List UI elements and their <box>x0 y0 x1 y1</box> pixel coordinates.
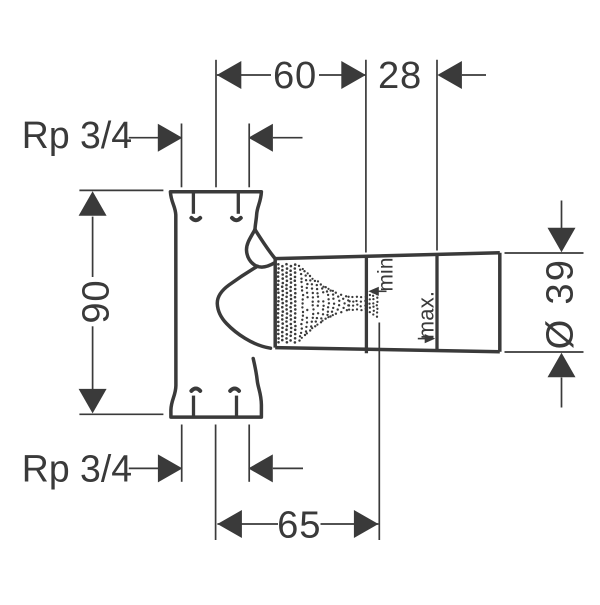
spigot left cap <box>273 258 277 347</box>
svg-text:90: 90 <box>75 280 118 324</box>
svg-text:min: min <box>375 257 398 291</box>
max leader <box>418 338 426 340</box>
svg-text:60: 60 <box>273 54 317 97</box>
dim 60 line <box>217 74 271 76</box>
dim diameter 39 extension lines <box>505 252 584 254</box>
min leader <box>378 290 387 292</box>
svg-text:Ø 39: Ø 39 <box>539 258 582 350</box>
dim 60-28 extension line pipe axis <box>215 60 217 188</box>
min depth line <box>365 256 368 353</box>
dim 60-28 extension line min <box>365 60 367 253</box>
thread tick top-right <box>237 193 240 214</box>
svg-text:65: 65 <box>277 504 321 547</box>
transition teardrop left <box>246 230 274 268</box>
max depth line <box>435 255 438 351</box>
dim 90 extension bottom <box>79 413 163 415</box>
thread tick top-left <box>192 193 195 214</box>
Rp bottom extension lines <box>181 425 183 482</box>
dim 90 line+arrows <box>79 191 107 216</box>
svg-text:Rp 3/4: Rp 3/4 <box>22 448 132 490</box>
Rp top extension lines <box>181 124 183 188</box>
svg-text:28: 28 <box>378 54 422 97</box>
dim 65 extension lines <box>215 425 217 541</box>
transition teardrop right <box>255 230 275 259</box>
dim 60-28 extension line max <box>436 60 438 251</box>
Rp top leader <box>129 137 159 139</box>
spigot bottom edge <box>275 348 500 352</box>
dim 28 arrow <box>437 61 462 89</box>
svg-text:max.: max. <box>414 291 439 339</box>
thread tick bottom-right <box>235 396 238 417</box>
dim 90 extension top <box>79 189 163 191</box>
Rp bottom leader <box>129 467 159 469</box>
stipple seal texture <box>277 263 379 344</box>
dim 39 line+arrows <box>561 201 563 230</box>
thread tick bottom-left <box>192 396 195 417</box>
main body outline <box>170 192 261 417</box>
svg-text:Rp 3/4: Rp 3/4 <box>22 115 132 157</box>
spigot top edge <box>275 253 500 259</box>
spigot right cap <box>498 253 502 352</box>
dim 65 line+arrows <box>217 523 278 525</box>
internal funnel bell <box>217 266 270 348</box>
